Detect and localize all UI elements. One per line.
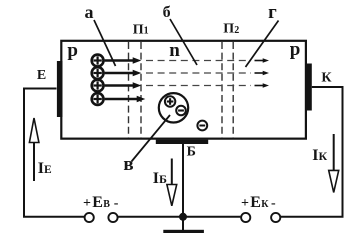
hole h4 with motion arrow bbox=[92, 93, 146, 105]
battery Ек terminal circles bbox=[241, 213, 280, 222]
drift dashed trajectory row 2 with end arrow bbox=[146, 71, 269, 76]
hole h3 with motion arrow bbox=[92, 80, 142, 92]
wire emitter lead bbox=[24, 89, 84, 217]
svg-text:а: а bbox=[85, 2, 94, 22]
wire collector lead bbox=[281, 87, 343, 217]
label П1 bbox=[133, 22, 149, 37]
ground bar bbox=[163, 230, 204, 233]
svg-text:П2: П2 bbox=[223, 22, 239, 37]
wire bottom middle segment bbox=[118, 216, 240, 218]
pointer line г bbox=[246, 21, 279, 68]
current label Iе bbox=[38, 160, 52, 177]
svg-text:p: p bbox=[290, 39, 301, 60]
current label Iб bbox=[153, 170, 167, 187]
svg-text:б: б bbox=[163, 4, 171, 21]
svg-text:n: n bbox=[169, 40, 180, 61]
svg-text:+ЕК-: +ЕК- bbox=[241, 194, 276, 211]
free electron circle bbox=[197, 121, 207, 131]
wire base lead bbox=[182, 144, 184, 230]
svg-text:IЕ: IЕ bbox=[38, 160, 52, 177]
svg-text:p: p bbox=[67, 40, 78, 61]
svg-text:+ЕВ-: +ЕВ- bbox=[83, 194, 119, 211]
base electrode bar bbox=[156, 140, 208, 144]
drift dashed trajectory row 3 with end arrow bbox=[146, 83, 269, 88]
battery Ев terminal circles bbox=[85, 213, 118, 222]
junction П2 dashed boundary lines bbox=[222, 42, 233, 138]
svg-text:К: К bbox=[321, 71, 332, 86]
label а bbox=[85, 2, 94, 22]
region label p collector bbox=[290, 39, 301, 60]
svg-text:Б: Б bbox=[187, 145, 196, 160]
pointer line б bbox=[170, 19, 197, 65]
recombination circle with hole and electron bbox=[159, 93, 188, 122]
region label n base bbox=[169, 40, 180, 61]
svg-text:Е: Е bbox=[37, 68, 46, 83]
svg-text:в: в bbox=[123, 154, 133, 175]
terminal label Е bbox=[37, 68, 46, 83]
region label p emitter bbox=[67, 40, 78, 61]
svg-text:IБ: IБ bbox=[153, 170, 167, 187]
junction П1 dashed boundary lines bbox=[129, 42, 142, 138]
terminal label К bbox=[321, 71, 332, 86]
transistor body box (semiconductor bar) bbox=[61, 41, 306, 139]
terminal label Б bbox=[187, 145, 196, 160]
label г bbox=[268, 2, 277, 23]
junction node dot bbox=[179, 213, 187, 221]
hole h2 with motion arrow bbox=[92, 67, 142, 79]
current arrow Iк (hollow, down) bbox=[329, 134, 339, 192]
current label Iк bbox=[312, 147, 327, 164]
svg-text:г: г bbox=[268, 2, 277, 23]
collector electrode bar bbox=[306, 64, 312, 111]
battery label + Ев - bbox=[83, 194, 119, 211]
emitter electrode bar bbox=[57, 61, 63, 117]
label в bbox=[123, 154, 133, 175]
label б bbox=[163, 4, 171, 21]
svg-text:П1: П1 bbox=[133, 22, 149, 37]
current arrow Iе (hollow, up) bbox=[29, 118, 39, 181]
battery label + Ек - bbox=[241, 194, 276, 211]
pointer line a bbox=[94, 20, 116, 66]
hole h1 with motion arrow bbox=[92, 55, 142, 67]
drift dashed trajectory row 1 with end arrow bbox=[146, 58, 269, 63]
label П2 bbox=[223, 22, 239, 37]
pointer line в bbox=[132, 115, 171, 162]
svg-text:IК: IК bbox=[312, 147, 327, 164]
current arrow Iб (hollow, down) bbox=[167, 159, 177, 206]
